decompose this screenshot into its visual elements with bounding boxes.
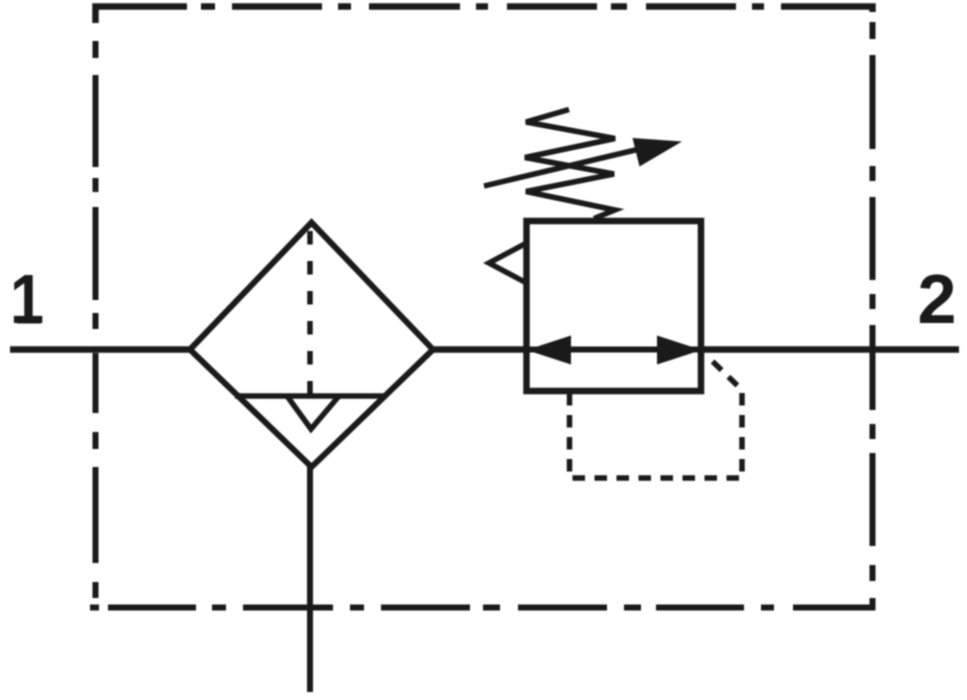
wire: inlet line port 1 to filter [10, 346, 193, 353]
enclosure dash-dot boundary right [870, 22, 876, 581]
enclosure dash-dot boundary top [96, 7, 873, 24]
svg-text:1: 1 [10, 260, 44, 338]
drain line [307, 467, 313, 692]
svg-text:2: 2 [918, 260, 957, 338]
flow line through regulator [527, 347, 702, 353]
filter element dashed centre line [307, 231, 313, 396]
arrowhead left [527, 336, 572, 365]
arrowhead right [657, 336, 702, 365]
relief vent triangle [489, 243, 527, 283]
pilot dashed feedback loop [570, 355, 743, 478]
port 1 foot serif [17, 317, 41, 324]
spring zigzag [525, 110, 615, 219]
adjustment arrow shaft [484, 147, 648, 186]
water separator V [287, 396, 339, 429]
adjustment arrowhead [633, 138, 683, 167]
water separator chord [235, 393, 387, 399]
wire: filter to regulator to port 2 [431, 346, 959, 353]
enclosure dash-dot boundary bottom [90, 598, 873, 608]
regulator R1 body square [527, 221, 702, 391]
enclosure dash-dot boundary left [93, 41, 99, 598]
filter F1 diamond body [190, 223, 433, 468]
